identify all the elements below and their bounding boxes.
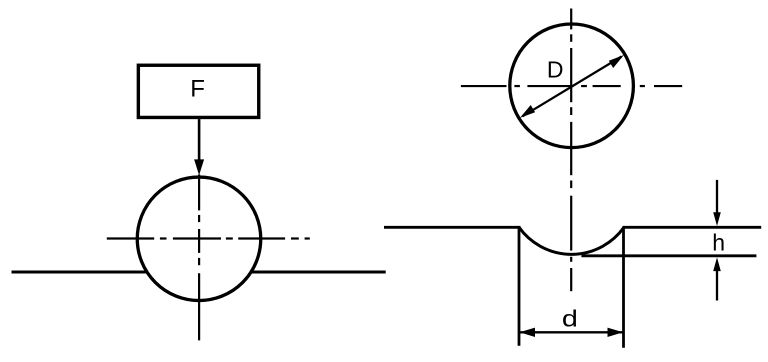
crater depth reference line xyxy=(581,254,756,257)
diameter arrow line xyxy=(523,57,622,117)
extension line right (d) xyxy=(622,227,625,347)
vertical centerline (left ball) xyxy=(198,175,200,341)
d arrowhead left xyxy=(520,328,536,337)
h upper arrowhead (points down) xyxy=(713,212,721,226)
specimen surface line (left view) xyxy=(12,271,146,274)
wire: surface right segment xyxy=(251,271,386,274)
diameter arrowhead upper-right xyxy=(609,55,624,68)
dimension line d xyxy=(520,331,623,333)
svg-text:h: h xyxy=(712,229,725,255)
specimen surface line (right view, left of crater) xyxy=(384,226,521,229)
force arrowhead xyxy=(194,159,204,175)
force box F xyxy=(138,65,258,117)
vertical centerline (right, through ball and crater) xyxy=(570,9,572,292)
svg-text:d: d xyxy=(562,305,578,332)
svg-text:D: D xyxy=(547,56,564,82)
indenter ball circle (left) xyxy=(137,177,261,300)
horizontal centerline (right ball) xyxy=(461,85,682,87)
h lower arrowhead (points up) xyxy=(713,257,721,271)
svg-text:F: F xyxy=(190,76,205,103)
ball circle (right) xyxy=(510,24,634,148)
extension line left (d) xyxy=(518,227,521,345)
horizontal centerline (left ball) xyxy=(107,237,310,239)
specimen surface line (right view, right of crater) xyxy=(623,226,762,229)
d arrowhead right xyxy=(608,328,624,337)
force arrow shaft xyxy=(198,119,201,161)
diameter arrowhead lower-left xyxy=(520,105,535,118)
h upper arrow shaft xyxy=(716,180,718,215)
h lower arrow shaft xyxy=(716,270,718,301)
indentation crater arc xyxy=(519,227,624,254)
